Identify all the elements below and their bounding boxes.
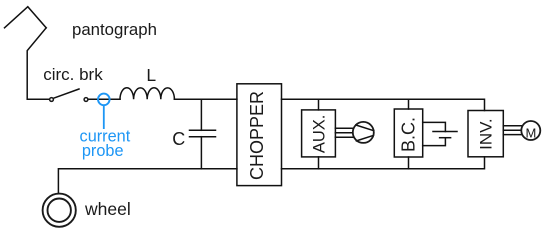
svg-text:M: M [525, 125, 536, 140]
svg-text:INV.: INV. [477, 118, 496, 150]
svg-text:pantograph: pantograph [72, 20, 157, 39]
svg-text:C: C [172, 129, 185, 149]
svg-text:B.C.: B.C. [399, 117, 419, 152]
svg-text:circ. brk: circ. brk [43, 65, 103, 84]
svg-text:CHOPPER: CHOPPER [247, 91, 267, 180]
svg-text:wheel: wheel [84, 199, 131, 219]
svg-text:AUX.: AUX. [310, 115, 328, 154]
svg-text:L: L [146, 65, 156, 85]
svg-text:probe: probe [82, 142, 124, 160]
